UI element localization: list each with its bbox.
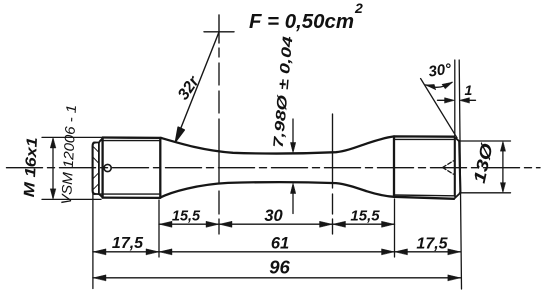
- end face ext long tilted line: [459, 60, 461, 289]
- thread minor line bottom left head: [100, 193, 159, 195]
- radius center cross vertical: [218, 15, 220, 43]
- 7,98 dim upper arrow: [290, 143, 295, 153]
- svg-text:15,5: 15,5: [172, 209, 201, 225]
- dim 1 left arrow: [445, 98, 455, 103]
- specimen outline bottom: [103, 182, 454, 199]
- radius leader arrowhead: [176, 127, 185, 141]
- 7,98 dim lower shaft: [292, 186, 294, 214]
- thread minor line top left head: [100, 140, 160, 142]
- left head right edge: [159, 138, 161, 198]
- row3 arrows: [93, 275, 106, 281]
- svg-text:F = 0,50cm: F = 0,50cm: [249, 11, 354, 33]
- right end chamfer bottom slope: [454, 193, 460, 198]
- thread minor line top right head: [394, 138, 454, 140]
- dim 1 left shaft with arrow: [438, 99, 453, 101]
- 7,98 dim lower arrow: [290, 183, 295, 193]
- ext line right head left (x=394.5): [394, 199, 396, 257]
- svg-text:17,5: 17,5: [112, 235, 144, 252]
- 30deg arc arrowheads: [425, 82, 452, 90]
- row1 arrows: [159, 221, 172, 227]
- row2 arrows: [93, 249, 106, 255]
- specimen outline top: [103, 136, 454, 153]
- 13dia dim line: [502, 143, 504, 191]
- left cap bottom edge: [94, 194, 103, 198]
- right end chamfer top slope: [454, 137, 459, 142]
- radius center cross tick: [204, 31, 234, 33]
- svg-text:2: 2: [354, 0, 363, 16]
- left cap chamfer hatch 2: [93, 157, 99, 163]
- M16 dimension line: [52, 139, 54, 198]
- row1 dimension line 15,5/30/15,5: [159, 223, 395, 225]
- dim 1 right arrow: [459, 98, 469, 103]
- svg-text:1: 1: [465, 82, 473, 98]
- svg-text:96: 96: [269, 257, 290, 278]
- svg-text:30: 30: [264, 207, 283, 225]
- right center-drill hidden cone: [443, 161, 454, 174]
- left head left edge: [101, 138, 103, 198]
- svg-text:17,5: 17,5: [416, 236, 448, 253]
- left end cap face: [93, 143, 95, 194]
- right end chamfer edge: [454, 138, 456, 196]
- svg-text:30°: 30°: [427, 60, 453, 80]
- chamfer ext line left (x=454.8 above head): [454, 60, 456, 136]
- right end face line: [459, 141, 460, 193]
- 13dia top extension: [459, 140, 511, 142]
- svg-text:M 16x1: M 16x1: [21, 137, 41, 198]
- M16 bottom extension line: [42, 198, 101, 200]
- left cap chamfer hatch 3: [93, 173, 99, 179]
- 30deg arc: [426, 82, 452, 87]
- row3 dimension line 96: [93, 277, 461, 279]
- dim 1 right shaft with arrow: [462, 99, 476, 101]
- left cap chamfer hatch 1: [93, 146, 99, 152]
- ext line left overall (x=93): [92, 193, 94, 289]
- radius leader line: [178, 32, 220, 137]
- 13dia bottom extension: [460, 192, 511, 194]
- horizontal centerline: [7, 167, 541, 169]
- svg-text:15,5: 15,5: [350, 208, 380, 225]
- M16 top extension line: [42, 136, 101, 138]
- label F = 0,50cm2: [249, 0, 363, 33]
- left center-drill circle: [104, 164, 111, 171]
- gauge mark chain line right: [332, 114, 334, 234]
- right head left edge: [393, 136, 395, 196]
- gauge mark chain line left: [218, 48, 220, 234]
- 13dia arrows: [500, 141, 505, 192]
- left cap top edge: [94, 138, 103, 143]
- row2 dimension line 17,5/61/17,5: [93, 251, 461, 253]
- left cap chamfer hatch 4: [93, 184, 99, 190]
- 30deg slope reference line: [421, 79, 457, 138]
- M16 dim arrows: [50, 138, 56, 200]
- left thread chamfer circle: [98, 142, 100, 194]
- thread minor line bottom right head: [394, 194, 454, 197]
- svg-text:61: 61: [271, 235, 289, 253]
- 7,98 dim upper shaft: [292, 119, 294, 150]
- ext line head right (x=159): [158, 200, 160, 257]
